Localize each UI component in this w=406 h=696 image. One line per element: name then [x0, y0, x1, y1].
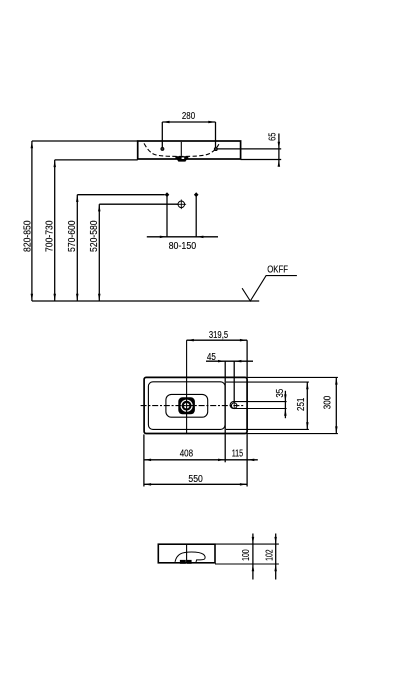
svg-text:OKFF: OKFF	[267, 265, 288, 276]
svg-text:319,5: 319,5	[209, 330, 228, 341]
svg-text:570-600: 570-600	[67, 220, 78, 252]
svg-text:280: 280	[182, 111, 196, 122]
svg-text:550: 550	[188, 474, 203, 485]
svg-text:102: 102	[264, 549, 275, 561]
svg-text:820-850: 820-850	[23, 220, 34, 252]
svg-text:251: 251	[296, 398, 307, 411]
svg-text:65: 65	[268, 133, 279, 141]
svg-text:35: 35	[275, 389, 286, 398]
svg-text:520-580: 520-580	[89, 220, 100, 252]
svg-text:408: 408	[180, 448, 193, 459]
svg-text:700-730: 700-730	[45, 220, 56, 252]
svg-text:100: 100	[241, 549, 252, 561]
svg-text:80-150: 80-150	[169, 241, 197, 252]
svg-text:45: 45	[207, 352, 216, 363]
svg-text:115: 115	[232, 448, 243, 459]
svg-text:300: 300	[323, 395, 334, 409]
